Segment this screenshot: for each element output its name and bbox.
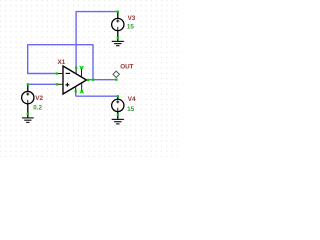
- OUT port diamond: [113, 71, 119, 77]
- ground below V4: [112, 119, 124, 124]
- ground below V2: [22, 118, 34, 123]
- svg-text:V2: V2: [35, 95, 43, 102]
- svg-text:X1: X1: [58, 59, 66, 66]
- wire op-amp V+ vertical: [75, 11, 77, 68]
- op-amp plus input pin: [57, 83, 64, 85]
- op-amp top power pin 2: [81, 68, 83, 78]
- ground below V3: [112, 41, 124, 45]
- wire feedback left vertical: [27, 44, 29, 73]
- op-amp bottom power pin 1: [75, 86, 77, 91]
- node dots: [27, 11, 119, 116]
- svg-text:0.2: 0.2: [33, 105, 42, 112]
- wire V3 top horizontal: [76, 11, 118, 13]
- unconnected pin marker top: [80, 66, 84, 69]
- voltage source V2: [22, 84, 34, 118]
- op-amp minus mark: [66, 72, 70, 74]
- svg-text:OUT: OUT: [120, 64, 133, 71]
- wire feedback top horizontal: [28, 44, 93, 46]
- op-amp X1 triangle: [63, 66, 87, 94]
- wire inverting input: [27, 73, 57, 75]
- op-amp top power pin 1: [75, 68, 77, 74]
- op-amp output pin: [87, 79, 90, 81]
- op-amp plus mark: [65, 83, 69, 87]
- wire noninverting input: [28, 83, 57, 85]
- op-amp bottom power pin 2: [81, 83, 83, 91]
- wire feedback right vertical: [92, 44, 94, 79]
- voltage source V4: [112, 96, 124, 119]
- wire op-amp V- vertical: [75, 91, 77, 96]
- svg-text:V4: V4: [128, 96, 136, 103]
- svg-text:V3: V3: [128, 15, 136, 22]
- svg-text:15: 15: [127, 23, 135, 30]
- wire output to OUT port: [88, 79, 116, 81]
- unconnected pin marker bottom: [80, 90, 84, 93]
- svg-text:15: 15: [127, 106, 135, 113]
- op-amp minus input pin: [57, 73, 64, 75]
- wire V4 top horizontal: [76, 95, 118, 97]
- voltage source V3: [112, 12, 124, 42]
